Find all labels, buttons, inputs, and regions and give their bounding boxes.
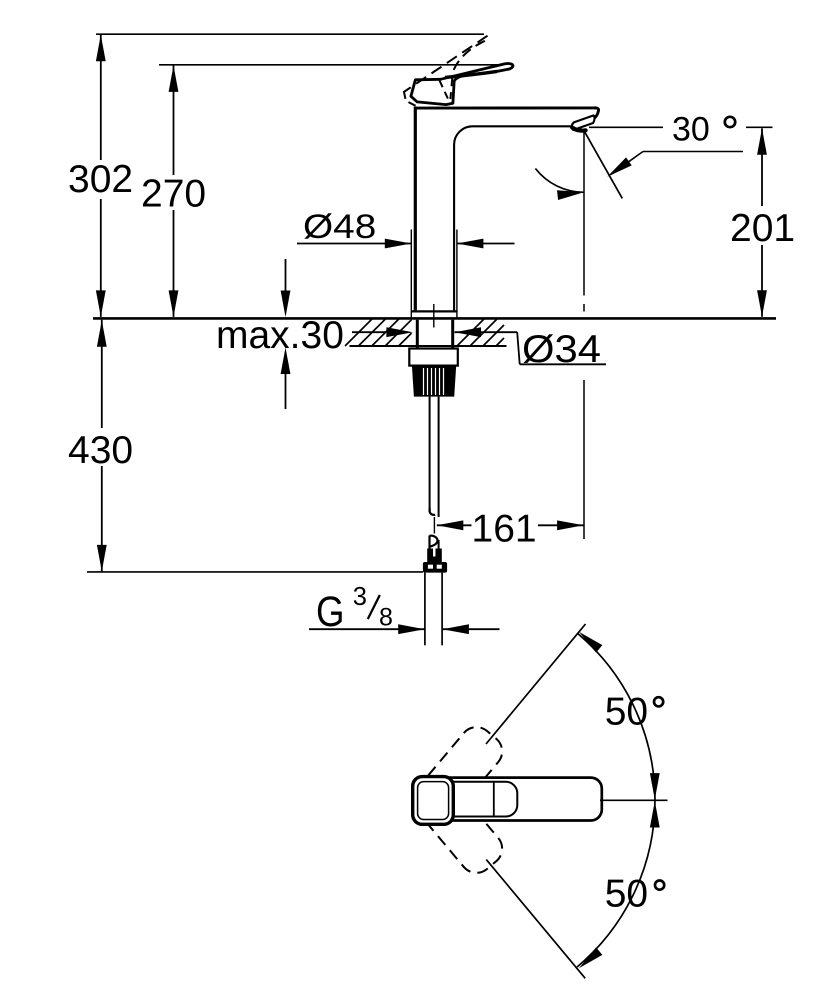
extension line bottom (430 at connector flange) [87,571,423,573]
bottom view: grip inner surface [419,782,517,817]
spout underside and inner edge [454,126,571,311]
aerator [572,115,595,130]
mounting shank [416,320,419,349]
bottom view: grip divider [493,782,495,817]
svg-text:8: 8 [379,603,393,631]
faucet lever handle (side view) [411,64,513,105]
30 degree leader line [643,151,743,153]
svg-text:Ø34: Ø34 [522,328,601,371]
counter bottom line [350,345,507,347]
bottom view: dashed handle rotated up 50 [409,720,509,827]
50 degree radial line upper [486,624,586,744]
bottom view: handle plan outline [415,778,602,821]
spray direction line [584,131,622,199]
svg-text:Ø48: Ø48 [303,208,376,246]
30 degree reference line [589,126,663,128]
hose break [428,536,430,549]
bottom view: dashed handle rotated down 50 [409,773,509,880]
washer [409,349,458,366]
body left edge [414,107,417,312]
30 degree ring [725,117,735,127]
counter top line [93,317,776,320]
svg-text:max.30: max.30 [216,314,344,357]
svg-text:50: 50 [605,690,648,733]
dimension 430 line [101,320,103,428]
161 hose extension line [433,517,435,534]
dimension Ø48 line [297,243,411,245]
dashed raised handle (side view) [404,36,488,107]
svg-text:G: G [316,588,345,636]
counter hatching left [345,319,412,347]
spout outlet centerline [583,131,585,296]
30 degree arc [535,169,584,193]
dimension 201 extension [746,126,773,128]
svg-text:50: 50 [605,873,648,916]
knurled mounting nut [412,366,456,397]
svg-text:270: 270 [141,173,206,216]
dimension 161 line [437,524,472,526]
G3/8 connector [427,549,442,563]
lever underside shadow [445,71,497,77]
svg-text:30: 30 [672,111,710,149]
dimension 270 line [173,65,175,175]
extension line top (302) [96,33,484,35]
Ø48 extension line left [410,230,412,318]
svg-text:161: 161 [472,508,537,551]
counter hatching right [457,319,504,347]
Ø48 extension line right [456,230,458,318]
center tick at base [433,304,435,328]
bottom view centerline [600,799,668,801]
svg-text:302: 302 [68,158,133,201]
dimension Ø34 leader [352,331,386,333]
connector flange [423,562,447,573]
bottom view: cap [413,777,454,825]
base plate [411,310,458,312]
dimension 201 line [761,128,763,206]
dimension 302 line [100,34,102,160]
connector tube [424,573,426,646]
dimension max.30 arrows [285,259,287,294]
extension line second (270) [159,64,504,66]
supply hose [429,397,431,513]
svg-text:430: 430 [68,429,133,472]
svg-text:3: 3 [353,583,367,611]
faucet body and spout [415,108,598,120]
50 degree arc [577,633,655,967]
dimension G3/8 line [309,628,425,630]
svg-text:201: 201 [730,207,795,250]
50 degree radial line lower [486,860,585,979]
